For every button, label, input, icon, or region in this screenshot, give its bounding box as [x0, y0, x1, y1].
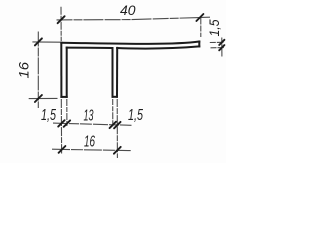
- svg-text:1,5: 1,5: [41, 107, 56, 124]
- svg-text:1,5: 1,5: [206, 19, 222, 36]
- 45-degree tick marks: [35, 14, 225, 154]
- dimension and extension lines (thin scanned gray): [29, 7, 224, 158]
- svg-text:16: 16: [16, 62, 32, 79]
- extension line right 1.5 bottom (y=47.7): [211, 47, 225, 49]
- extension line left of 40 dim (x=61): [60, 7, 62, 41]
- wire leg1 bottom cap: [61, 96, 66, 98]
- profile outline (top flange 40x1.5 with two 16-deep legs): [61, 42, 199, 97]
- dimension texts: [16, 2, 223, 151]
- extension line below leg1 outer (x=61.3): [60, 99, 62, 154]
- tick row1 at leg2 left: [110, 122, 116, 128]
- tick right 1.5 top: [219, 40, 224, 45]
- svg-text:40: 40: [120, 2, 136, 18]
- extension line top for 16 dim (y=42): [32, 41, 60, 43]
- dimension line 40 (top): [57, 17, 211, 20]
- extension line below leg1 inner (x=66.8): [66, 99, 68, 127]
- wire flange underside right segment: [117, 46, 199, 48]
- tick 40 dim right: [196, 14, 203, 21]
- tick row2 right: [114, 147, 121, 154]
- tick row2 left: [59, 146, 66, 153]
- wire leg2 left face: [112, 48, 114, 97]
- wire flange right end cap: [198, 42, 200, 47]
- dimension line 16 (left, vertical): [37, 32, 39, 109]
- wire flange underside middle segment: [67, 47, 113, 49]
- dimension line 1.5 (right, vertical): [221, 38, 223, 57]
- tick row1 at leg2 right: [114, 122, 120, 128]
- tick row1 at leg1 outer: [58, 120, 64, 126]
- extension line right 1.5 top (y=42.4): [210, 41, 224, 43]
- tick 16 left dim bottom: [35, 95, 42, 102]
- tick 16 left dim top: [35, 38, 42, 45]
- tick 40 dim left: [58, 16, 65, 23]
- extension line bottom for 16 dim (y=98.6): [29, 97, 58, 99]
- wire flange top edge: [61, 42, 199, 44]
- svg-text:1,5: 1,5: [128, 107, 143, 124]
- wire leg1 right face: [66, 48, 68, 97]
- wire leg2 right face: [116, 48, 118, 97]
- extension line below leg2 left (x=112.7): [112, 99, 114, 127]
- dimension line 16 (bottom row 2): [52, 149, 131, 150]
- extension line right of 40 dim (x=200.8): [200, 18, 202, 38]
- wire leg1 left face: [60, 43, 62, 97]
- svg-text:13: 13: [84, 108, 94, 125]
- extension line below leg2 right (x=117.2): [116, 99, 118, 158]
- tick right 1.5 bottom: [219, 45, 224, 50]
- svg-text:16: 16: [84, 134, 95, 151]
- wire leg2 bottom cap: [113, 96, 118, 98]
- tick row1 at leg1 inner: [64, 120, 70, 126]
- dimension line 1.5 / 13 / 1.5 (bottom row 1): [53, 123, 132, 125]
